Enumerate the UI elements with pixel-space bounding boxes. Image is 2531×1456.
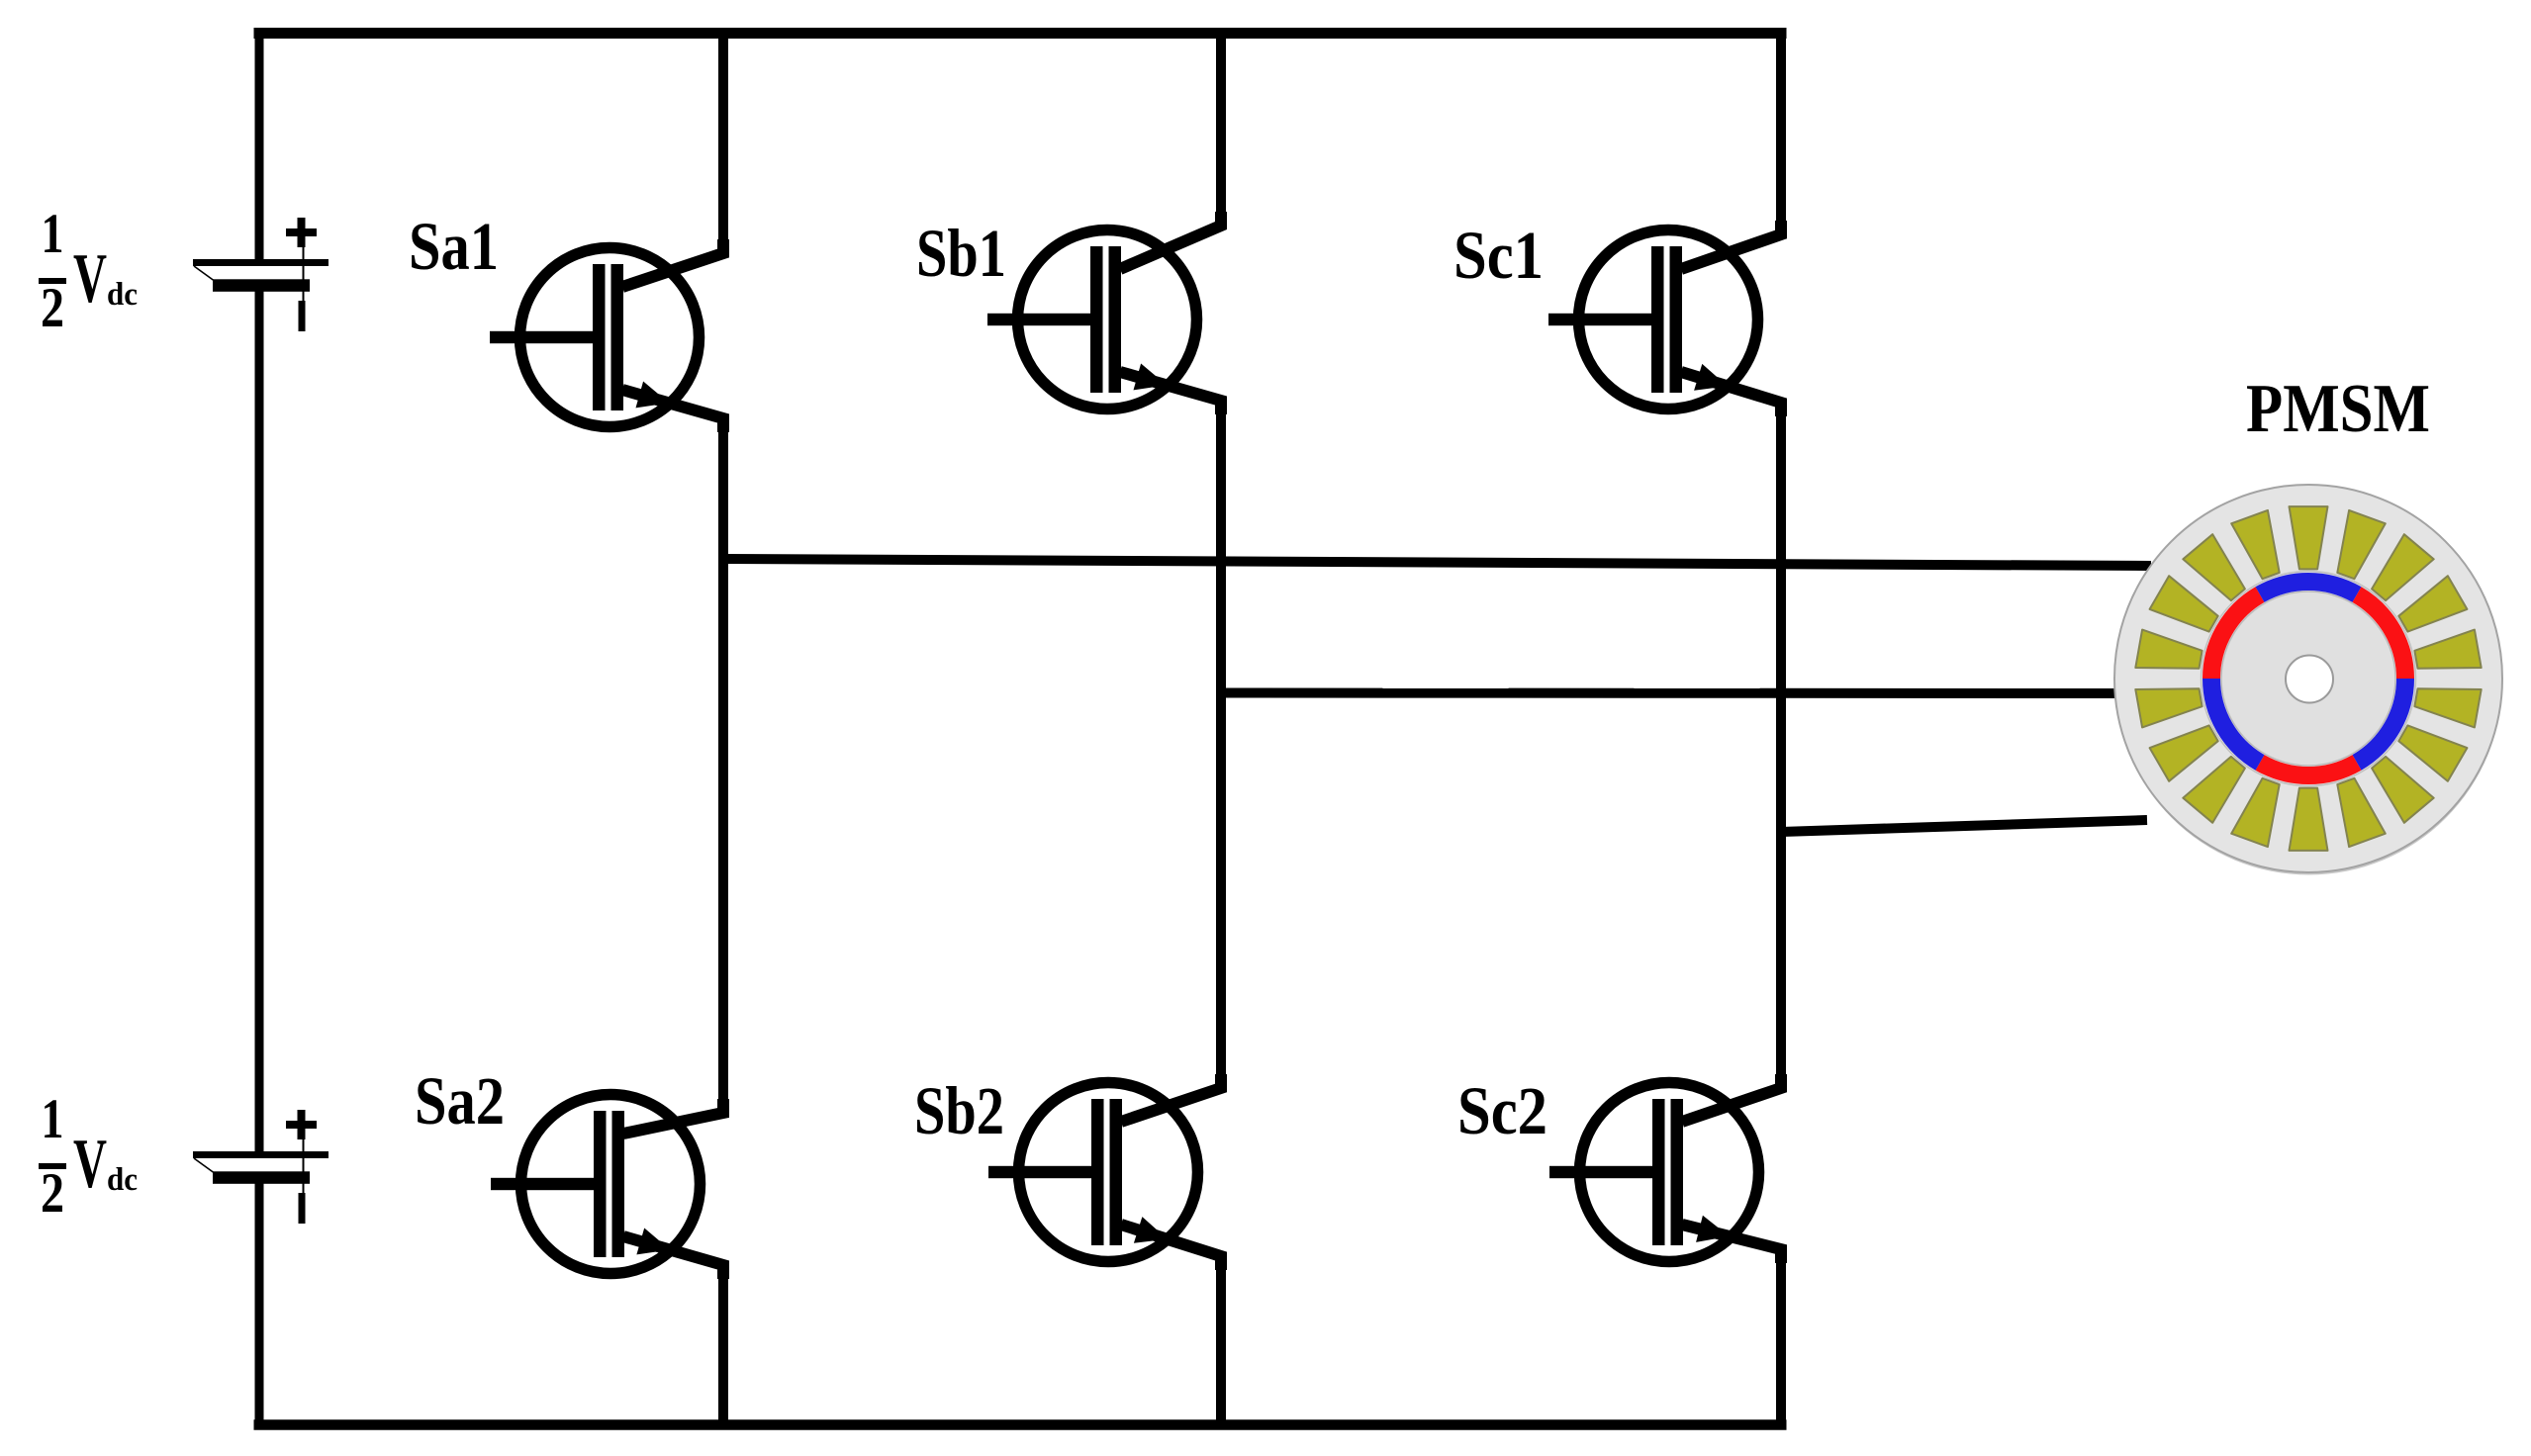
svg-text:V: V [73,1126,107,1203]
rotor magnet arc: blue pole (top) [2260,582,2357,594]
Sc1 collector lead [1681,221,1781,269]
svg-text:Sc2: Sc2 [1457,1073,1547,1148]
stator slot winding 10 [2290,788,2328,851]
Sa2 emitter lead [623,1236,723,1279]
Sc2 body circle [1580,1083,1759,1262]
Sa1 gate lead [490,331,605,343]
wire: phase B output line to PMSM [1221,688,2117,699]
Sa1 emitter lead [622,390,723,432]
svg-text:dc: dc [107,277,138,313]
Sa2 collector lead [623,1099,723,1134]
Sc1 gate bar [1651,246,1664,393]
Sb2 gate bar [1091,1099,1104,1245]
svg-text:Sa1: Sa1 [409,209,499,284]
Sa1 body circle [520,248,700,427]
Sc1 body circle [1579,230,1758,409]
Sa2 body bar [612,1111,625,1257]
transistor Sb2 (IGBT switch) [988,1074,1221,1270]
battery B2 (lower 1/2 Vdc): thin polarity lead line [303,1139,305,1194]
stator slot winding 12 [2183,757,2245,823]
value label 1/2 Vdc for battery B2 [39,1088,138,1225]
svg-text:1: 1 [42,1088,64,1150]
stator slot winding 1 [2290,506,2328,569]
stator slot winding 8 [2372,757,2434,823]
wire: phase A output line to PMSM [723,559,2151,566]
svg-text:Sc1: Sc1 [1453,218,1544,293]
wire: left DC bus, top segment (top bus to battery B1) [255,28,264,263]
Sa1 body bar [611,264,624,410]
wire: phase-B leg, top segment (bus to Sb1 collector) [1216,28,1226,226]
battery B2 (lower 1/2 Vdc): short (-) plate [213,1171,310,1184]
Sb2 emitter lead [1121,1225,1221,1270]
wire: phase-C leg / right bus, middle segment (Sc1 emitter to Sc2 collector) [1776,403,1786,1088]
svg-text:Sa2: Sa2 [415,1063,505,1138]
svg-text:2: 2 [41,277,64,339]
Sb1 gate bar [1090,246,1103,393]
stator slot winding 6 [2414,688,2481,727]
stator slot winding 2 [2337,510,2386,579]
Sc2 body bar [1671,1099,1684,1245]
wire: phase-C leg / right bus, bottom segment (Sc2 emitter to bottom bus) [1776,1249,1786,1430]
Sb2 collector lead [1121,1074,1221,1122]
battery B1 (upper 1/2 Vdc): thin 3D edge line [194,266,214,281]
wire: bottom DC bus [254,1419,1787,1430]
battery B1 (upper 1/2 Vdc): plus sign [286,228,317,236]
Sb1 collector lead [1120,212,1221,269]
Sb2 body bar [1110,1099,1123,1245]
stator slot winding 5 [2414,630,2481,669]
motor drop shadow [2115,489,2502,875]
Sa1 gate bar [593,264,606,410]
transistor Sb1 (IGBT switch) [987,212,1221,414]
stator slot winding 13 [2150,725,2218,780]
battery B1 (upper 1/2 Vdc): minus bar [299,301,306,331]
Sb2 emitter arrow [1134,1217,1168,1243]
rotor core disc [2221,591,2395,766]
stator slot winding 7 [2398,725,2467,780]
battery B2 (lower 1/2 Vdc): minus bar [299,1193,306,1224]
rotor shaft hole [2286,656,2333,703]
wire: phase-C leg / right bus, top segment (bus to Sc1 collector) [1776,28,1786,234]
Sa2 body circle [521,1095,701,1274]
Sb2 body circle [1019,1083,1198,1262]
magnet ring outer outline [2202,572,2416,786]
Sc1 body bar [1670,246,1683,393]
Sc2 collector lead [1682,1074,1781,1122]
stator body [2114,485,2502,872]
svg-text:2: 2 [41,1162,64,1225]
transistor Sa1 (IGBT switch) [490,239,723,432]
wire: left DC bus, bottom segment (battery B2 to bottom bus) [255,1179,264,1430]
wire: left DC bus, middle segment (battery B1 to battery B2) [255,286,264,1155]
battery B1 (upper 1/2 Vdc): short (-) plate [213,279,310,292]
stator slot winding 9 [2337,778,2386,847]
svg-text:V: V [73,240,107,318]
stator slot winding 3 [2372,534,2434,600]
transistor Sc1 (IGBT switch) [1548,221,1781,416]
stator slot winding 11 [2231,778,2280,847]
svg-text:dc: dc [107,1162,138,1198]
wire: phase-A leg, middle segment (Sa1 emitter to Sa2 collector) [718,418,728,1113]
battery B2 (lower 1/2 Vdc): long (+) plate [193,1151,328,1158]
rotor magnet arc: red pole (bottom) [2260,763,2357,775]
transistor Sc2 (IGBT switch) [1549,1074,1781,1263]
Sc2 gate bar [1652,1099,1665,1245]
rotor magnet arc: blue pole (lower left) [2211,679,2260,763]
Sb1 body circle [1018,230,1197,409]
battery B1 (upper 1/2 Vdc): long (+) plate [193,259,328,266]
Sc2 emitter arrow [1696,1216,1729,1242]
wire: phase-A leg, top segment (bus to Sa1 collector) [718,28,728,253]
Sb2 gate lead [988,1166,1103,1178]
stator slot winding 14 [2135,688,2202,727]
Sa1 emitter arrow [636,382,670,409]
transistor Sa2 (IGBT switch) [491,1095,723,1280]
motor PMSM cross-section [2114,485,2502,875]
wire: top DC bus [254,28,1787,39]
Sc1 emitter arrow [1694,364,1728,391]
battery B2 (lower 1/2 Vdc): thin 3D edge line [194,1158,214,1173]
Sc1 gate lead [1548,314,1663,325]
svg-text:PMSM: PMSM [2246,371,2430,447]
stator slot winding 4 [2398,576,2467,631]
Sa2 gate lead [491,1178,606,1190]
wire: phase-B leg, middle segment (Sb1 emitter to Sb2 collector) [1216,401,1226,1088]
rotor magnet arc: red pole (upper right) [2357,594,2405,679]
svg-text:Sb2: Sb2 [914,1073,1004,1148]
battery B2 (lower 1/2 Vdc): plus sign [286,1121,317,1129]
Sc2 emitter lead [1682,1225,1781,1263]
stator slot winding 15 [2135,630,2202,669]
wire: phase-A leg, bottom segment (Sa2 emitter to bottom bus) [718,1265,728,1429]
Sa1 collector lead [622,239,723,287]
stator slot winding 18 [2231,510,2280,579]
Sa2 gate bar [594,1111,607,1257]
Sb1 body bar [1109,246,1122,393]
wire: phase-B leg, bottom segment (Sb2 emitter to bottom bus) [1216,1256,1226,1429]
rotor magnet arc: blue pole (lower right) [2357,679,2405,763]
svg-text:Sb1: Sb1 [916,216,1006,291]
Sb1 gate lead [987,314,1102,325]
battery B1 (upper 1/2 Vdc): thin polarity lead line [303,247,305,302]
Sc1 emitter lead [1681,372,1781,416]
svg-text:1: 1 [42,203,64,265]
Sb1 emitter arrow [1134,364,1168,391]
Sb1 emitter lead [1120,372,1221,414]
Sa2 emitter arrow [636,1228,670,1255]
value label 1/2 Vdc for battery B1 [39,203,138,339]
stator slot winding 17 [2183,534,2245,600]
rotor magnet arc: red pole (upper left) [2211,594,2260,679]
Sc2 gate lead [1549,1166,1664,1178]
stator slot winding 16 [2150,576,2218,631]
wire: phase C output line to PMSM [1781,820,2147,832]
